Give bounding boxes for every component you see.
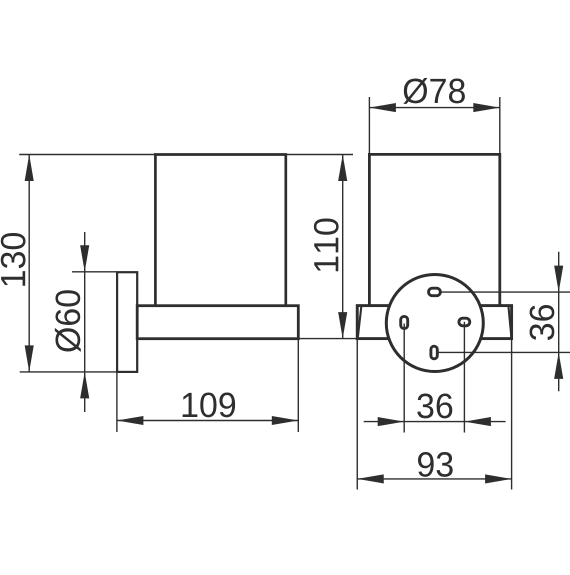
wall plate circle (front)	[386, 275, 483, 372]
arrow 36h right (outside, pointing left)	[464, 417, 491, 426]
slot left	[401, 316, 408, 328]
arrow 110 top	[338, 155, 347, 182]
extension line: right slot down	[463, 322, 465, 433]
arrow 36v top (outside, pointing down)	[554, 266, 563, 293]
extension line: top slot to right	[442, 291, 570, 293]
extension line: left slot down	[403, 324, 405, 433]
label 130	[1, 233, 26, 286]
label 36 vertical	[530, 305, 555, 340]
arrow 110 bottom	[338, 312, 347, 339]
arrow 93 left	[357, 474, 384, 483]
arrow 93 right	[485, 474, 512, 483]
dimension line Ø78	[369, 107, 499, 109]
extension line: plate bottom	[20, 371, 117, 373]
right view: holder bar	[357, 306, 511, 339]
dimension line 130	[28, 155, 30, 372]
left view: wall plate (side)	[117, 272, 137, 372]
arrow Ø60 top (outside, pointing down)	[80, 245, 89, 271]
left view: holder arm	[137, 306, 298, 339]
dimension line 93	[357, 478, 511, 480]
extension line: 109 right	[297, 339, 299, 432]
dimension line 109	[117, 420, 298, 422]
extension line: 109 left	[116, 372, 118, 432]
arrow 130 bottom	[25, 345, 34, 372]
label 109	[183, 393, 235, 418]
arrow Ø78 right	[473, 103, 500, 112]
label 93	[418, 452, 453, 477]
slot top	[429, 288, 441, 296]
bar right chamfer line	[509, 307, 512, 337]
slot right	[459, 318, 470, 326]
label Ø60	[55, 290, 81, 352]
dimension line Ø60	[84, 232, 86, 412]
label Ø78	[403, 78, 465, 104]
label 110	[314, 219, 339, 272]
arrow 109 left	[117, 416, 143, 425]
arrow 109 right	[272, 416, 299, 425]
label 36 horizontal	[417, 394, 452, 419]
extension line: bottom slot to right	[436, 351, 570, 353]
arrow 36h left (outside, pointing right)	[378, 417, 405, 426]
right view: tumbler (cup) front outline	[369, 154, 499, 307]
left view: tumbler (cup) side outline	[155, 155, 285, 307]
extension line: arm bottom to right view	[298, 338, 357, 340]
slot bottom	[431, 346, 437, 359]
extension line: 93 left	[356, 340, 358, 490]
extension line: top right of left cup	[286, 154, 353, 156]
extension line: 93 right	[511, 340, 513, 490]
extension line: Ø78 left	[368, 97, 370, 154]
dimension line 36 horizontal	[364, 421, 506, 423]
arrow Ø78 left	[369, 103, 396, 112]
extension line: Ø78 right	[499, 97, 501, 154]
arrow Ø60 bottom (outside, pointing up)	[80, 372, 89, 399]
arrow 130 top	[25, 155, 34, 182]
dimension line 36 vertical	[558, 252, 560, 392]
arrow 36v bottom (outside, pointing up)	[554, 352, 563, 379]
dimension line 110	[342, 155, 344, 339]
extension line: top of views (left of cup)	[19, 154, 155, 156]
bar left chamfer line	[358, 307, 361, 337]
extension line: plate top (for Ø60)	[72, 271, 117, 273]
